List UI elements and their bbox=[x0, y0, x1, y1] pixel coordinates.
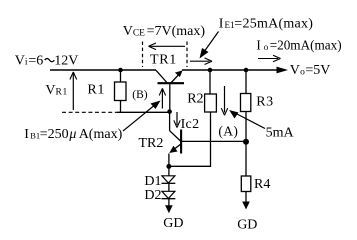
svg-text:5mA: 5mA bbox=[266, 126, 295, 141]
svg-text:IB1=250μA(max): IB1=250μA(max) bbox=[24, 127, 122, 142]
node dot TR1 base bbox=[167, 109, 172, 114]
resistor R4 bbox=[241, 142, 251, 203]
svg-text:R2: R2 bbox=[187, 92, 203, 107]
svg-text:TR1: TR1 bbox=[150, 53, 177, 68]
current arrow Io bbox=[258, 55, 281, 62]
svg-text:Vo=5V: Vo=5V bbox=[290, 63, 331, 78]
current arrow R3 branch down bbox=[221, 86, 227, 115]
svg-text:R1: R1 bbox=[87, 82, 105, 97]
output arrowhead Vo bbox=[277, 67, 289, 74]
wire TR2 base lead to node A bbox=[181, 140, 246, 142]
wire TR2 emitter to R2 bottom bbox=[169, 165, 211, 167]
dashed measure line VR1 bottom bbox=[62, 111, 117, 113]
wire D1 to D2 bbox=[168, 183, 170, 191]
current arrow IE1 bbox=[190, 58, 212, 65]
arrow VCE left-pointing bbox=[149, 43, 186, 50]
svg-text:(A): (A) bbox=[218, 124, 238, 139]
dashed VCE tick right bbox=[186, 42, 188, 68]
ground arrow left bbox=[165, 205, 173, 213]
wire emitter node to D1 bbox=[168, 169, 170, 176]
node dot R3 top bbox=[244, 68, 249, 73]
leader arrow IE1 bbox=[200, 32, 219, 59]
resistor R2 bbox=[205, 70, 217, 166]
resistor R3 bbox=[241, 70, 251, 142]
leader arrow 5mA bbox=[229, 110, 265, 129]
svg-text:R4: R4 bbox=[254, 177, 270, 192]
svg-text:D1: D1 bbox=[144, 174, 161, 189]
svg-text:R3: R3 bbox=[256, 94, 274, 109]
svg-text:D2: D2 bbox=[144, 188, 161, 203]
wire D2 down bbox=[168, 199, 170, 206]
diode D1 bbox=[162, 176, 176, 184]
svg-text:TR2: TR2 bbox=[139, 136, 164, 151]
ground arrow right bbox=[242, 202, 250, 210]
label Vi bbox=[15, 54, 79, 69]
wire base node to R1 bbox=[117, 111, 170, 113]
node dot R1 top bbox=[118, 68, 123, 73]
diode D2 bbox=[162, 191, 176, 198]
svg-text:GD: GD bbox=[237, 218, 257, 233]
leader arrow IB1 bbox=[123, 101, 161, 132]
dashed VCE tick left bbox=[142, 42, 144, 68]
wire input rail bbox=[50, 69, 156, 71]
node dot TR2 emitter bbox=[166, 164, 171, 169]
transistor TR2 bbox=[169, 114, 181, 165]
current arrow base IB1 up bbox=[159, 88, 165, 108]
svg-text:(B): (B) bbox=[132, 89, 148, 101]
resistor R1 bbox=[115, 70, 127, 112]
node dot R2 top bbox=[208, 68, 213, 73]
arrow VR1 bbox=[70, 72, 77, 110]
svg-text:Ic2: Ic2 bbox=[181, 117, 200, 132]
wire output rail bbox=[182, 69, 278, 71]
svg-text:GD: GD bbox=[163, 216, 183, 231]
node dot A bbox=[243, 139, 249, 145]
transistor TR1 bbox=[156, 70, 184, 111]
svg-text:Io=20mA(max): Io=20mA(max) bbox=[256, 37, 341, 52]
current arrow Ic2 down bbox=[174, 112, 180, 128]
